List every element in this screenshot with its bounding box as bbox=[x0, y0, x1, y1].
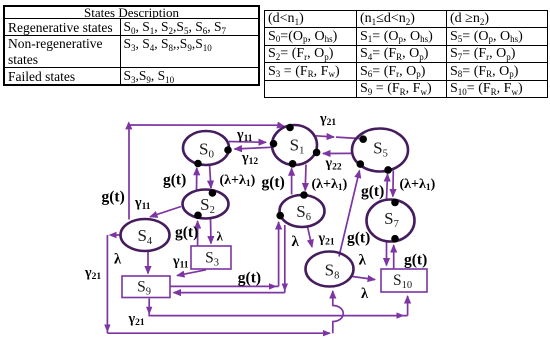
svg-text:(λ+λ1): (λ+λ1) bbox=[312, 177, 348, 193]
state S9 box bbox=[122, 276, 170, 298]
svg-text:S5: S5 bbox=[373, 139, 388, 160]
state S0 ellipse bbox=[183, 131, 229, 165]
wire gamma21 S1 to S5 bbox=[316, 136, 334, 137]
wire gamma21 S6 to S8 bbox=[308, 227, 313, 248]
arrowhead right on S9-S6 wire bbox=[269, 283, 277, 289]
state S7 ellipse bbox=[367, 200, 415, 242]
svg-text:g(t): g(t) bbox=[163, 171, 186, 188]
arrowhead up on S4-S1 wire bbox=[125, 121, 132, 129]
svg-text:g(t): g(t) bbox=[102, 189, 125, 206]
svg-text:γ21: γ21 bbox=[318, 231, 335, 248]
state S5 ellipse bbox=[352, 129, 408, 172]
state S10 box bbox=[381, 269, 427, 292]
state S6 ellipse bbox=[280, 195, 325, 227]
wire gamma21 S9 down right up into S10 bottom bbox=[149, 299, 407, 316]
svg-text:λ: λ bbox=[361, 286, 369, 302]
wire gamma11 S3 to S9 bbox=[177, 270, 206, 276]
wire gamma21 S4 left down bottom right up into S8 bbox=[113, 234, 121, 236]
wire g(t) S10 to S7 bbox=[393, 245, 395, 269]
svg-text:S6: S6 bbox=[296, 202, 311, 223]
arrowhead right on bottom wire bbox=[323, 330, 331, 336]
svg-text:λ: λ bbox=[292, 234, 300, 250]
svg-text:S7: S7 bbox=[384, 209, 399, 230]
svg-text:γ21: γ21 bbox=[128, 312, 145, 329]
arrowhead left on S4 stub bbox=[109, 232, 117, 238]
wire g(t) S3 to S2 bbox=[197, 221, 199, 246]
state S4 ellipse bbox=[121, 219, 170, 251]
svg-text:g(t): g(t) bbox=[238, 270, 261, 287]
svg-text:γ11: γ11 bbox=[172, 254, 189, 271]
wire g(t) S2 to S0 bbox=[196, 168, 198, 190]
svg-text:g(t): g(t) bbox=[175, 224, 198, 241]
wire lambda S2 to S3 bbox=[210, 219, 213, 244]
state S1 ellipse bbox=[272, 125, 317, 165]
svg-text:γ12: γ12 bbox=[241, 151, 258, 168]
svg-text:γ21: γ21 bbox=[319, 112, 336, 129]
svg-text:S10: S10 bbox=[393, 272, 412, 291]
wire lambda S7 to S10 bbox=[386, 242, 388, 266]
svg-text:S8: S8 bbox=[325, 261, 340, 282]
wire (lambda+lambda1) S5 to S7 bbox=[392, 171, 394, 197]
wire g(t) S6 to S1 bbox=[291, 168, 293, 194]
svg-text:S2: S2 bbox=[200, 195, 215, 216]
state name labels bbox=[137, 136, 412, 298]
transition labels bbox=[84, 112, 436, 329]
svg-text:S4: S4 bbox=[137, 226, 152, 247]
arrowhead down on S9 exit corner bbox=[146, 307, 152, 315]
junction dots bbox=[194, 124, 399, 243]
right table: state definitions bbox=[264, 10, 548, 98]
wire gamma11 S2 to S4 bbox=[150, 207, 181, 217]
svg-text:λ: λ bbox=[359, 253, 367, 269]
svg-text:S9: S9 bbox=[137, 279, 151, 298]
wire g(t) S4 up then right into S1 top bbox=[128, 125, 130, 220]
svg-text:γ21: γ21 bbox=[84, 266, 101, 283]
svg-text:λ: λ bbox=[114, 251, 122, 267]
svg-text:g(t): g(t) bbox=[262, 174, 285, 191]
wire lambda S4 to S9 bbox=[147, 251, 149, 274]
wire g(t) S7 to S5 bbox=[387, 174, 388, 200]
wire lambda S6 down then left into S9 bbox=[284, 225, 286, 293]
svg-text:g(t): g(t) bbox=[361, 183, 384, 200]
state S2 ellipse bbox=[183, 190, 229, 219]
wire gamma11 S0 to S1 bbox=[229, 141, 266, 144]
svg-text:S0: S0 bbox=[199, 140, 214, 161]
svg-text:S3: S3 bbox=[205, 250, 219, 269]
wire lambda S8 to S10 bbox=[353, 277, 376, 280]
arrowhead right on S9-S10 wire bbox=[397, 312, 405, 318]
state S3 box bbox=[191, 246, 231, 269]
svg-text:(λ+λ1): (λ+λ1) bbox=[220, 173, 256, 189]
svg-text:(λ+λ1): (λ+λ1) bbox=[400, 177, 436, 193]
wire (lambda+lambda1) S1 to S6 bbox=[304, 165, 307, 191]
svg-text:γ11: γ11 bbox=[134, 196, 151, 213]
svg-text:γ11: γ11 bbox=[236, 128, 253, 145]
wire g(t) S8 to S5 bbox=[339, 171, 360, 257]
svg-text:λ: λ bbox=[217, 229, 224, 244]
wire (lambda+lambda1) S0 to S2 bbox=[210, 165, 212, 189]
svg-text:g(t): g(t) bbox=[404, 251, 427, 268]
wire gamma22 S5 to S1 bbox=[323, 152, 351, 154]
mid-path direction arrowheads bbox=[104, 121, 404, 336]
wire gamma12 S1 to S0 bbox=[235, 147, 272, 149]
arrowhead down on S6-S9 wire bbox=[282, 284, 288, 292]
state S8 ellipse bbox=[306, 252, 354, 287]
left table: states description bbox=[3, 5, 260, 86]
svg-text:S1: S1 bbox=[290, 136, 305, 157]
svg-text:g(t): g(t) bbox=[347, 230, 370, 247]
wire g(t) S9 right then up into S6 bbox=[171, 285, 279, 287]
svg-text:γ22: γ22 bbox=[325, 156, 342, 173]
arrowhead down on left vertical wire bbox=[104, 325, 110, 333]
